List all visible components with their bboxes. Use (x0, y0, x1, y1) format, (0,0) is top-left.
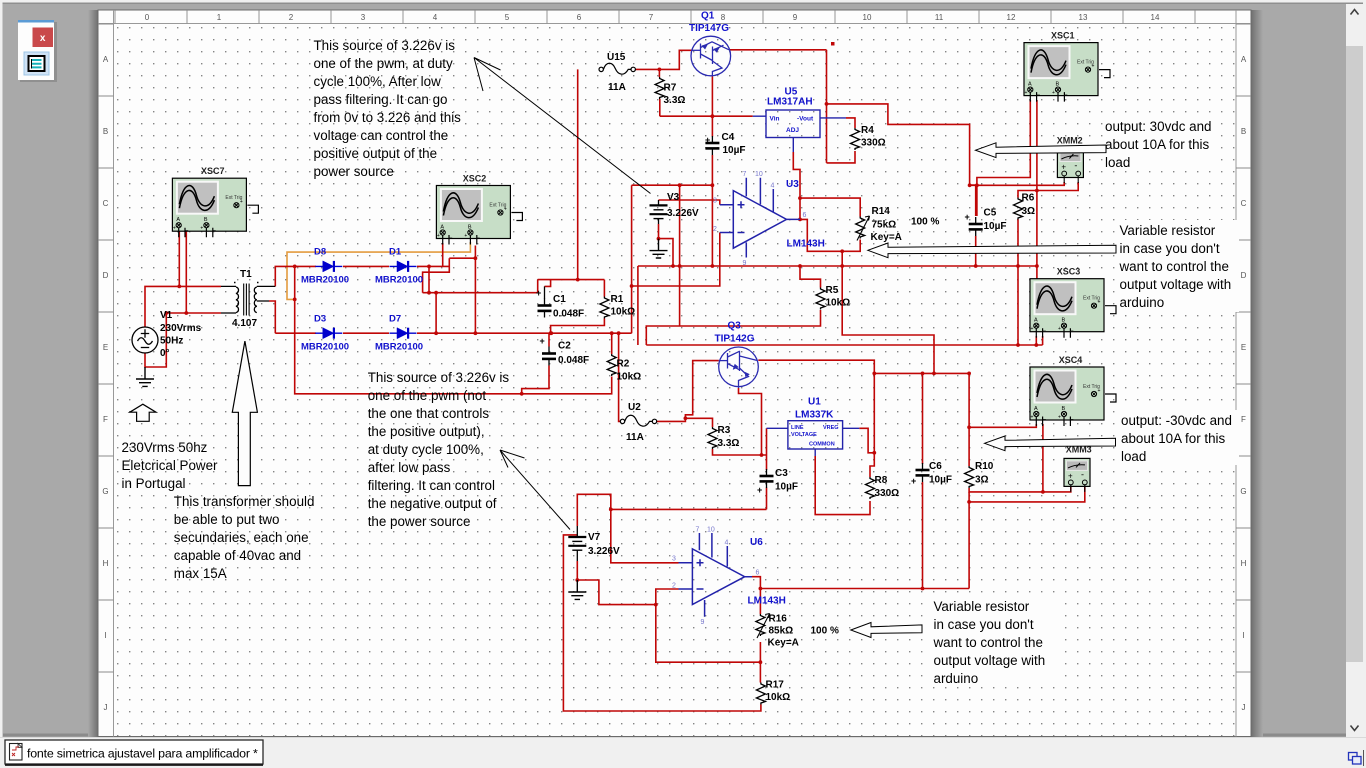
svg-text:voltage can control the: voltage can control the (314, 128, 449, 143)
svg-text:C3: C3 (775, 468, 788, 479)
svg-text:C: C (103, 199, 109, 208)
svg-text:R6: R6 (1022, 193, 1035, 204)
svg-text:G: G (102, 487, 108, 496)
svg-text:V3: V3 (667, 192, 680, 203)
resistor R10 (965, 466, 974, 488)
svg-text:10kΩ: 10kΩ (766, 692, 791, 703)
svg-text:after low pass: after low pass (368, 460, 451, 475)
svg-text:V1: V1 (160, 310, 173, 321)
svg-text:in case you don't: in case you don't (1120, 241, 1220, 256)
stray red dot marker (831, 42, 835, 46)
transistor Q1 TIP147G (691, 36, 731, 76)
svg-text:D1: D1 (389, 247, 402, 258)
wire main mid rail y266 (638, 265, 1037, 267)
resistor R17 (756, 683, 765, 705)
svg-text:14: 14 (1151, 13, 1160, 22)
variable resistor R14 (856, 217, 865, 239)
annotation text block 2 (368, 370, 510, 529)
svg-text:7: 7 (649, 13, 654, 22)
multimeter XMM2 (1057, 150, 1083, 184)
svg-text:10µF: 10µF (984, 221, 1007, 232)
svg-text:be able to put two: be able to put two (174, 512, 280, 527)
svg-text:R3: R3 (718, 425, 731, 436)
wire junction dots (164, 68, 1044, 665)
svg-text:4.107: 4.107 (232, 318, 257, 329)
in-use-list button (24, 52, 49, 75)
svg-text:in case you don't: in case you don't (934, 617, 1034, 632)
wire bridge+ rail y292.7 (423, 292, 538, 294)
svg-text:+: + (536, 288, 541, 298)
svg-text:at duty cycle 100%,: at duty cycle 100%, (368, 442, 484, 457)
wire D1 cathode to knot (417, 265, 449, 267)
svg-text:in Portugal: in Portugal (122, 476, 186, 491)
svg-text:LM317AH: LM317AH (767, 97, 813, 108)
wire x631 drop (631, 185, 633, 333)
svg-text:Eletcrical Power: Eletcrical Power (122, 458, 219, 473)
thin arrow to R16 (851, 623, 922, 638)
wire XSC1 A+ to C5 node (977, 100, 1030, 216)
svg-text:LM337K: LM337K (795, 410, 834, 421)
wire U6 pin3 feed (611, 509, 767, 562)
svg-text:+: + (540, 336, 545, 346)
svg-text:330Ω: 330Ω (861, 138, 886, 149)
wire T1 secondary bottom elbow (269, 301, 275, 333)
wire C1/R1 top rail (538, 280, 605, 297)
svg-text:I: I (1242, 631, 1244, 640)
svg-text:the positive output),: the positive output), (368, 424, 485, 439)
annotation text variable resistor right (1119, 223, 1232, 310)
wire XMM2 + line (970, 182, 1065, 185)
svg-text:LINE: LINE (791, 425, 804, 431)
diode D1 (390, 261, 417, 272)
svg-text:50Hz: 50Hz (160, 336, 183, 347)
sheet rulers (98, 10, 1251, 737)
svg-text:cycle 100%, After low: cycle 100%, After low (314, 74, 442, 89)
svg-text:+: + (757, 485, 762, 495)
svg-text:C4: C4 (722, 132, 735, 143)
svg-text:J: J (104, 703, 108, 712)
wire U6 output rail y588.5 (760, 588, 969, 590)
svg-text:4: 4 (771, 183, 775, 190)
svg-text:7: 7 (743, 171, 747, 178)
svg-text:3: 3 (361, 13, 366, 22)
wire XSC4 A+ jog (969, 424, 1036, 427)
svg-text:R10: R10 (975, 461, 994, 472)
capacitor C6 (916, 463, 930, 482)
svg-text:output: 30vdc and: output: 30vdc and (1105, 119, 1211, 134)
svg-text:E: E (103, 343, 108, 352)
wire U3 out loop to R14 bottom (800, 219, 860, 251)
svg-text:the negative output of: the negative output of (368, 496, 497, 511)
wire U6 out to R16 (752, 577, 760, 614)
wire XMM2 - jog (1037, 182, 1078, 191)
annotation text variable resistor bottom (933, 599, 1046, 686)
svg-text:R4: R4 (861, 125, 874, 136)
svg-text:10: 10 (707, 527, 715, 534)
wire C6 bottom to U6 rail (922, 482, 924, 589)
svg-text:capable of 40vac and: capable of 40vac and (174, 548, 301, 563)
capacitor C4 (705, 136, 719, 155)
svg-text:XSC1: XSC1 (1051, 31, 1075, 41)
svg-text:3.226V: 3.226V (588, 546, 620, 557)
svg-text:R5: R5 (826, 285, 839, 296)
wire T1 secondary top to diode row 1 (275, 266, 316, 286)
wire R7 bottom to Vin line (659, 99, 661, 116)
svg-text:11A: 11A (626, 432, 644, 443)
svg-text:MBR20100: MBR20100 (375, 342, 423, 353)
svg-text:10: 10 (755, 171, 763, 178)
svg-text:9: 9 (743, 260, 747, 267)
svg-text:G: G (1240, 487, 1246, 496)
wire C2 tap (548, 333, 550, 346)
svg-text:10: 10 (863, 13, 872, 22)
svg-text:Q1: Q1 (701, 11, 715, 22)
svg-text:VREG: VREG (823, 425, 839, 431)
diode D7 (390, 328, 417, 339)
svg-text:100 %: 100 % (911, 217, 939, 228)
resistor R6 (1014, 198, 1023, 220)
svg-text:output voltage with: output voltage with (1120, 277, 1232, 292)
wire knot vertical at 429 (428, 266, 430, 292)
wire fuse U15 out to Q1 base (635, 50, 691, 69)
wire V1- jog to T1 primary bottom (145, 313, 221, 367)
svg-text:4: 4 (433, 13, 438, 22)
svg-text:2: 2 (713, 226, 717, 233)
svg-text:want to control the: want to control the (1119, 259, 1229, 274)
svg-text:R16: R16 (769, 614, 788, 625)
fuse U15 (599, 63, 635, 74)
svg-text:R2: R2 (617, 359, 630, 370)
svg-text:XMM2: XMM2 (1057, 136, 1083, 146)
svg-text:6: 6 (756, 570, 760, 577)
svg-text:R7: R7 (664, 83, 677, 94)
wire drop 436 to diode row2 (435, 293, 437, 334)
svg-text:R8: R8 (875, 475, 888, 486)
wire Q1 emitter output rail (729, 49, 827, 51)
svg-text:LM143H: LM143H (748, 596, 786, 607)
svg-text:TIP142G: TIP142G (715, 334, 755, 345)
svg-text:arduino: arduino (1120, 295, 1165, 310)
svg-text:secundaries, each one: secundaries, each one (174, 530, 309, 545)
svg-text:2: 2 (289, 13, 294, 22)
svg-text:0: 0 (145, 13, 150, 22)
svg-text:10kΩ: 10kΩ (826, 298, 851, 309)
svg-text:T1: T1 (240, 269, 252, 280)
svg-text:U3: U3 (786, 179, 799, 190)
schematic sheet (98, 10, 1251, 737)
svg-text:C6: C6 (929, 461, 942, 472)
svg-text:COMMON: COMMON (809, 442, 835, 448)
svg-text:MBR20100: MBR20100 (375, 275, 423, 286)
vertical scrollbar (1346, 4, 1363, 737)
svg-text:about 10A for this: about 10A for this (1121, 431, 1226, 446)
svg-text:ADJ: ADJ (786, 127, 799, 134)
wire x969 riser (968, 492, 970, 589)
svg-text:F: F (1241, 415, 1246, 424)
thin arrow to R14 (868, 243, 1116, 258)
svg-text:B: B (1241, 127, 1246, 136)
capacitor C5 (969, 217, 983, 236)
wire C2 bottom jog (522, 366, 549, 394)
svg-text:12: 12 (1007, 13, 1016, 22)
capacitor C3 (760, 469, 774, 488)
wire U5 Vout to R4 (846, 118, 855, 128)
regulator U5 LM317AH (766, 110, 820, 138)
svg-text:arduino: arduino (934, 671, 979, 686)
wire output riser right (826, 50, 828, 163)
op-amp U3 LM143H (720, 178, 800, 258)
wire V3 top to U3 pin3 (659, 200, 720, 205)
svg-text:10kΩ: 10kΩ (617, 372, 642, 383)
wire V7- jog (577, 561, 656, 605)
svg-text:+: + (911, 476, 916, 486)
wire XSC7 A+ down (178, 229, 180, 286)
svg-text:Variable resistor: Variable resistor (1120, 223, 1216, 238)
wire R7 top tap (658, 69, 660, 77)
oscilloscope XSC3 (1030, 279, 1116, 338)
svg-text:+: + (965, 212, 970, 222)
svg-text:Key=A: Key=A (768, 638, 799, 649)
svg-text:C: C (1241, 199, 1247, 208)
wire PWM drop x679.6 (679, 185, 681, 326)
svg-text:R1: R1 (611, 294, 624, 305)
wire XSC7 A- down (185, 229, 187, 313)
bottom tab bar (0, 737, 1366, 768)
wire C6 top drop (922, 373, 924, 464)
svg-text:4: 4 (725, 540, 729, 547)
svg-text:0.048F: 0.048F (558, 355, 589, 366)
svg-text:13: 13 (1079, 13, 1088, 22)
svg-text:the one that controls: the one that controls (368, 406, 490, 421)
svg-text:D: D (1241, 271, 1247, 280)
svg-text:one of the pwm, at duty: one of the pwm, at duty (314, 56, 454, 71)
battery V3 (658, 200, 660, 205)
svg-text:1: 1 (217, 13, 222, 22)
svg-text:330Ω: 330Ω (875, 488, 900, 499)
svg-text:R14: R14 (872, 206, 891, 217)
svg-text:the power source: the power source (368, 514, 471, 529)
wire orange XSC2.B+ to transformer secondary tap (287, 242, 470, 299)
wire rail333 segments with D3 D7 inline (275, 332, 631, 334)
wire R6 top jog (1018, 191, 1037, 198)
tall block arrow to T1 (232, 341, 257, 486)
wire U1 COMMON to R8 bottom (815, 456, 870, 515)
svg-text:XSC4: XSC4 (1059, 355, 1083, 365)
wire knot jog B- (423, 258, 476, 293)
wire U6 pin2 loop (656, 589, 761, 662)
annotation text transformer (174, 494, 315, 581)
wire bridge- left loop (295, 266, 612, 393)
svg-text:D: D (103, 271, 109, 280)
annotation text output+30 (1105, 119, 1211, 170)
wire R6 bottom drop (1017, 220, 1019, 346)
oscilloscope XSC4 (1030, 367, 1116, 426)
svg-text:from 0v to 3.226 and this: from 0v to 3.226 and this (314, 110, 462, 125)
oscilloscope XSC2 (436, 186, 522, 245)
wire XSC2 A+ drop (442, 243, 444, 266)
wire fuse U2 out to Q3 base (656, 361, 719, 422)
battery V7 (576, 526, 578, 537)
wire R4 bottom to output riser (827, 151, 856, 163)
wire Q3 collector line (758, 360, 874, 477)
svg-text:10kΩ: 10kΩ (611, 307, 636, 318)
svg-text:max 15A: max 15A (174, 566, 227, 581)
wire R3 bottom line (713, 449, 767, 455)
svg-text:100 %: 100 % (811, 626, 839, 637)
svg-text:H: H (103, 559, 109, 568)
ground below V7 (568, 580, 586, 599)
diode D8 (315, 261, 342, 272)
svg-text:power source: power source (314, 164, 394, 179)
svg-text:pass filtering. It can go: pass filtering. It can go (314, 92, 448, 107)
svg-text:I: I (104, 631, 106, 640)
wire drop 637.9 to rail345 (637, 266, 639, 345)
resistor R4 (851, 128, 860, 150)
svg-text:This source of 3.226v is: This source of 3.226v is (314, 38, 456, 53)
white text boxes (1103, 115, 1221, 168)
wire R16 R17 column (759, 642, 761, 683)
svg-text:one of the pwm (not: one of the pwm (not (368, 388, 487, 403)
svg-text:load: load (1121, 449, 1146, 464)
tab document icon (10, 744, 23, 761)
wire XSC1 A- drop (1036, 100, 1038, 279)
svg-text:-Vout: -Vout (797, 116, 814, 123)
wire riser to C1/R1 rail (537, 280, 539, 293)
wire R10 bottom line to XMM3+ (969, 487, 1071, 492)
thin arrow to XMM2 area (976, 143, 1107, 158)
svg-text:want to control the: want to control the (933, 635, 1043, 650)
wire R5 bottom to y326 line (646, 310, 820, 345)
svg-text:VOLTAGE: VOLTAGE (791, 432, 817, 438)
svg-text:R17: R17 (766, 680, 785, 691)
wire R14 drop from output rail (842, 251, 934, 373)
resistor R3 (708, 427, 717, 449)
wire U2 drop from rail (619, 333, 620, 421)
diode D3 (315, 328, 342, 339)
svg-text:output voltage with: output voltage with (934, 653, 1046, 668)
transformer T1 (221, 283, 275, 316)
wire U3 pin2 line (632, 233, 720, 287)
svg-text:H: H (1241, 559, 1247, 568)
svg-text:8: 8 (721, 13, 726, 22)
wire XMM3- line (969, 487, 1085, 502)
svg-text:10µF: 10µF (929, 475, 952, 486)
svg-text:output: -30vdc and: output: -30vdc and (1121, 413, 1232, 428)
wire R2 tap (611, 333, 613, 354)
svg-text:MBR20100: MBR20100 (301, 275, 349, 286)
svg-text:XSC7: XSC7 (201, 166, 225, 176)
wire U15 left drop to rail (577, 69, 579, 279)
svg-text:fonte simetrica ajustavel para: fonte simetrica ajustavel para amplifica… (27, 747, 258, 761)
svg-text:11A: 11A (608, 82, 626, 93)
svg-text:TIP147G: TIP147G (689, 23, 729, 34)
capacitor C1 (544, 286, 546, 299)
wire V1+ to T1 primary top (145, 286, 221, 327)
ground below V3 (650, 239, 668, 258)
resistor R5 (816, 288, 825, 310)
svg-text:B: B (103, 127, 108, 136)
svg-text:U6: U6 (750, 537, 763, 548)
svg-text:Key=A: Key=A (871, 232, 902, 243)
wire y185 link (632, 184, 713, 186)
svg-text:J: J (1242, 703, 1246, 712)
annotation text output-30 (1121, 413, 1232, 464)
svg-text:U15: U15 (607, 52, 626, 63)
fuse U2 (620, 415, 656, 426)
oscilloscope XSC7 (172, 178, 258, 237)
wire U5 ADJ drop (793, 152, 800, 219)
svg-text:Vin: Vin (770, 116, 780, 123)
svg-text:2: 2 (672, 583, 676, 590)
svg-text:0°: 0° (160, 348, 170, 359)
close button (33, 28, 54, 48)
wire U5 Vin line (660, 115, 753, 117)
wire y373 link to R10 column (874, 372, 969, 374)
AC source V1 (132, 327, 158, 353)
svg-text:3Ω: 3Ω (1022, 206, 1036, 217)
svg-text:10µF: 10µF (775, 482, 798, 493)
svg-text:U1: U1 (808, 397, 821, 408)
svg-text:75kΩ: 75kΩ (872, 220, 897, 231)
svg-text:C1: C1 (553, 294, 566, 305)
svg-text:85kΩ: 85kΩ (769, 626, 794, 637)
op-amp U6 LM143H (679, 533, 753, 617)
svg-text:3: 3 (672, 556, 676, 563)
block arrow up near V1 (130, 404, 156, 421)
svg-text:V7: V7 (588, 532, 601, 543)
svg-text:5: 5 (505, 13, 510, 22)
svg-text:LM143H: LM143H (787, 239, 825, 250)
svg-text:+: + (705, 135, 710, 145)
oscilloscope XSC1 (1024, 43, 1110, 102)
svg-text:6: 6 (577, 13, 582, 22)
wire R5 feed from rail (800, 266, 821, 288)
svg-text:XSC2: XSC2 (463, 174, 487, 184)
resistor R8 (866, 477, 875, 499)
svg-text:F: F (103, 415, 108, 424)
svg-text:3.3Ω: 3.3Ω (664, 95, 686, 106)
svg-text:XSC3: XSC3 (1057, 267, 1081, 277)
ground for V1 (136, 367, 154, 386)
svg-text:7: 7 (696, 527, 700, 534)
svg-text:C2: C2 (558, 341, 571, 352)
capacitor C2 (542, 347, 556, 366)
svg-text:10µF: 10µF (723, 145, 746, 156)
svg-text:230Vrms 50hz: 230Vrms 50hz (122, 440, 208, 455)
svg-text:filtering. It can control: filtering. It can control (368, 478, 495, 493)
wire R3 top jog (685, 418, 712, 427)
svg-text:Variable resistor: Variable resistor (934, 599, 1030, 614)
wire ADJ to R14 top (800, 198, 860, 216)
wire U1 LINE / C3 column (766, 428, 768, 509)
svg-text:D8: D8 (314, 247, 326, 258)
svg-text:3.226V: 3.226V (667, 208, 699, 219)
wire XSC3 A- stub to rail (1042, 336, 1044, 345)
wire Q1 collector drop through C4 (711, 77, 713, 267)
svg-text:C5: C5 (984, 208, 997, 219)
svg-text:load: load (1105, 155, 1130, 170)
svg-text:3Ω: 3Ω (975, 475, 989, 486)
wire D8 to D1 (343, 265, 389, 267)
bottom-right window icon (1349, 753, 1358, 761)
wire XSC3 A+ stub to rail (1035, 336, 1037, 345)
svg-text:x: x (40, 33, 46, 44)
svg-text:11: 11 (935, 13, 944, 22)
wire rail345 (646, 344, 1042, 346)
svg-text:E: E (1241, 343, 1246, 352)
wire branch to XSC1/C5 column (827, 104, 976, 216)
pencil arrow text2 to V7 (500, 450, 570, 530)
